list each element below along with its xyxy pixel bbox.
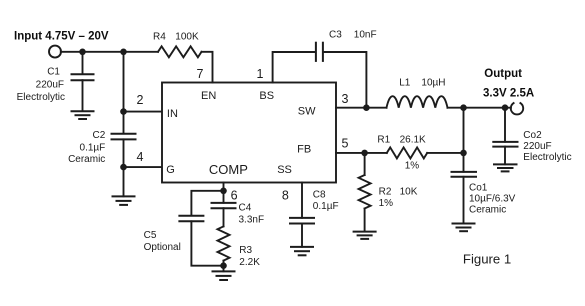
- svg-text:Electrolytic: Electrolytic: [523, 152, 571, 163]
- wire pin 1 to C3: [273, 52, 315, 83]
- svg-text:Input 4.75V – 20V: Input 4.75V – 20V: [14, 31, 109, 43]
- ground (C1): [72, 111, 94, 119]
- svg-text:6: 6: [231, 188, 238, 202]
- svg-text:FB: FB: [297, 144, 311, 156]
- node input-IN junction: [120, 49, 127, 56]
- ground (R3): [213, 271, 235, 280]
- wire input rail: [61, 51, 158, 53]
- svg-text:10K: 10K: [400, 187, 418, 198]
- svg-text:0.1µF: 0.1µF: [80, 142, 106, 153]
- svg-text:R2: R2: [379, 187, 392, 198]
- capacitor C1: [72, 52, 94, 111]
- output terminal: [511, 103, 523, 114]
- ground (C8): [291, 247, 313, 255]
- ground (C2): [113, 196, 135, 205]
- ground (R2): [354, 232, 376, 239]
- node input-C1 junction: [79, 49, 86, 56]
- svg-text:8: 8: [282, 188, 289, 202]
- node pin4 junction: [120, 164, 127, 171]
- wire L1 to output: [448, 107, 511, 109]
- svg-text:3.3V 2.5A: 3.3V 2.5A: [483, 88, 534, 100]
- input terminal: [49, 46, 61, 58]
- svg-text:10µH: 10µH: [421, 77, 445, 88]
- node pin2 junction: [120, 108, 127, 115]
- svg-text:R1: R1: [377, 134, 390, 145]
- wire pin 5 (FB): [336, 152, 387, 154]
- wire IN branch vertical: [123, 52, 125, 134]
- wire pin 4: [124, 166, 163, 168]
- svg-text:R3: R3: [239, 245, 252, 256]
- capacitor C4: [212, 203, 236, 227]
- svg-text:Ceramic: Ceramic: [68, 154, 105, 165]
- capacitor C8: [290, 218, 314, 247]
- node COMP junction: [220, 188, 227, 195]
- label C1 value: [17, 66, 65, 103]
- label Co2 value: [523, 130, 571, 163]
- svg-text:3: 3: [342, 92, 349, 106]
- wire R3 to ground: [223, 261, 225, 272]
- svg-text:Electrolytic: Electrolytic: [17, 92, 65, 103]
- svg-text:0.1µF: 0.1µF: [313, 201, 339, 212]
- svg-text:220uF: 220uF: [36, 79, 64, 90]
- svg-text:C1: C1: [47, 66, 60, 77]
- resistor R3: [218, 226, 230, 260]
- capacitor Co2: [493, 108, 517, 165]
- svg-text:1%: 1%: [379, 198, 394, 209]
- capacitor C3: [316, 43, 323, 61]
- capacitor Co1: [452, 153, 477, 223]
- svg-text:2.2K: 2.2K: [239, 257, 260, 268]
- svg-text:Co2: Co2: [523, 130, 542, 141]
- resistor R2: [359, 153, 371, 232]
- node SW junction: [363, 104, 370, 111]
- ground (Co2): [494, 164, 517, 171]
- IC U1 buck regulator body: [162, 83, 336, 183]
- ground (Co1): [453, 224, 475, 232]
- wire R1 to Co1 node: [427, 152, 463, 154]
- wire pin 2: [124, 111, 163, 113]
- svg-text:1: 1: [257, 67, 264, 81]
- svg-text:10nF: 10nF: [354, 30, 377, 41]
- inductor L1: [387, 96, 448, 108]
- svg-text:C3: C3: [329, 30, 342, 41]
- node output terminal junction: [502, 104, 509, 111]
- svg-text:G: G: [166, 164, 175, 176]
- svg-text:EN: EN: [201, 90, 216, 102]
- svg-text:Output: Output: [484, 68, 522, 80]
- svg-text:26.1K: 26.1K: [400, 134, 426, 145]
- svg-text:C2: C2: [93, 130, 106, 141]
- capacitor C2: [112, 134, 136, 197]
- capacitor C5: [179, 191, 223, 266]
- node FB junction: [361, 150, 368, 157]
- svg-text:C5: C5: [144, 230, 157, 241]
- svg-text:4: 4: [137, 150, 144, 164]
- resistor R1: [387, 147, 427, 158]
- svg-text:Ceramic: Ceramic: [469, 205, 506, 216]
- node R1-Co1 junction: [460, 150, 467, 157]
- svg-text:IN: IN: [167, 108, 178, 120]
- svg-text:R4: R4: [153, 31, 166, 42]
- svg-text:Co1: Co1: [469, 183, 488, 194]
- svg-text:100K: 100K: [175, 31, 199, 42]
- label C2 value: [68, 130, 106, 165]
- svg-text:SW: SW: [298, 105, 316, 117]
- svg-text:5: 5: [342, 137, 349, 151]
- svg-text:BS: BS: [259, 90, 274, 102]
- svg-text:C4: C4: [239, 202, 252, 213]
- svg-text:SS: SS: [277, 164, 292, 176]
- svg-text:L1: L1: [399, 77, 411, 88]
- wire pin 6 (COMP): [223, 183, 225, 203]
- wire output node to R1 node: [463, 108, 465, 153]
- node output junction: [460, 104, 467, 111]
- svg-text:Figure 1: Figure 1: [463, 252, 511, 267]
- svg-text:220uF: 220uF: [523, 141, 551, 152]
- label Co1 value: [469, 183, 516, 216]
- resistor R4: [158, 46, 202, 57]
- svg-text:10µF/6.3V: 10µF/6.3V: [469, 194, 516, 205]
- wire pin 8 (SS): [301, 183, 303, 218]
- svg-text:7: 7: [197, 67, 204, 81]
- svg-text:Optional: Optional: [144, 242, 181, 253]
- wire C3 to SW node: [324, 52, 367, 108]
- wire R4 to pin 7: [202, 52, 213, 83]
- svg-text:COMP: COMP: [209, 162, 248, 177]
- node R3-C5 junction: [220, 262, 227, 269]
- svg-text:C8: C8: [313, 189, 326, 200]
- wire pin 3 (SW): [336, 107, 387, 109]
- svg-text:1%: 1%: [405, 161, 420, 172]
- svg-text:2: 2: [137, 93, 144, 107]
- svg-text:3.3nF: 3.3nF: [239, 214, 265, 225]
